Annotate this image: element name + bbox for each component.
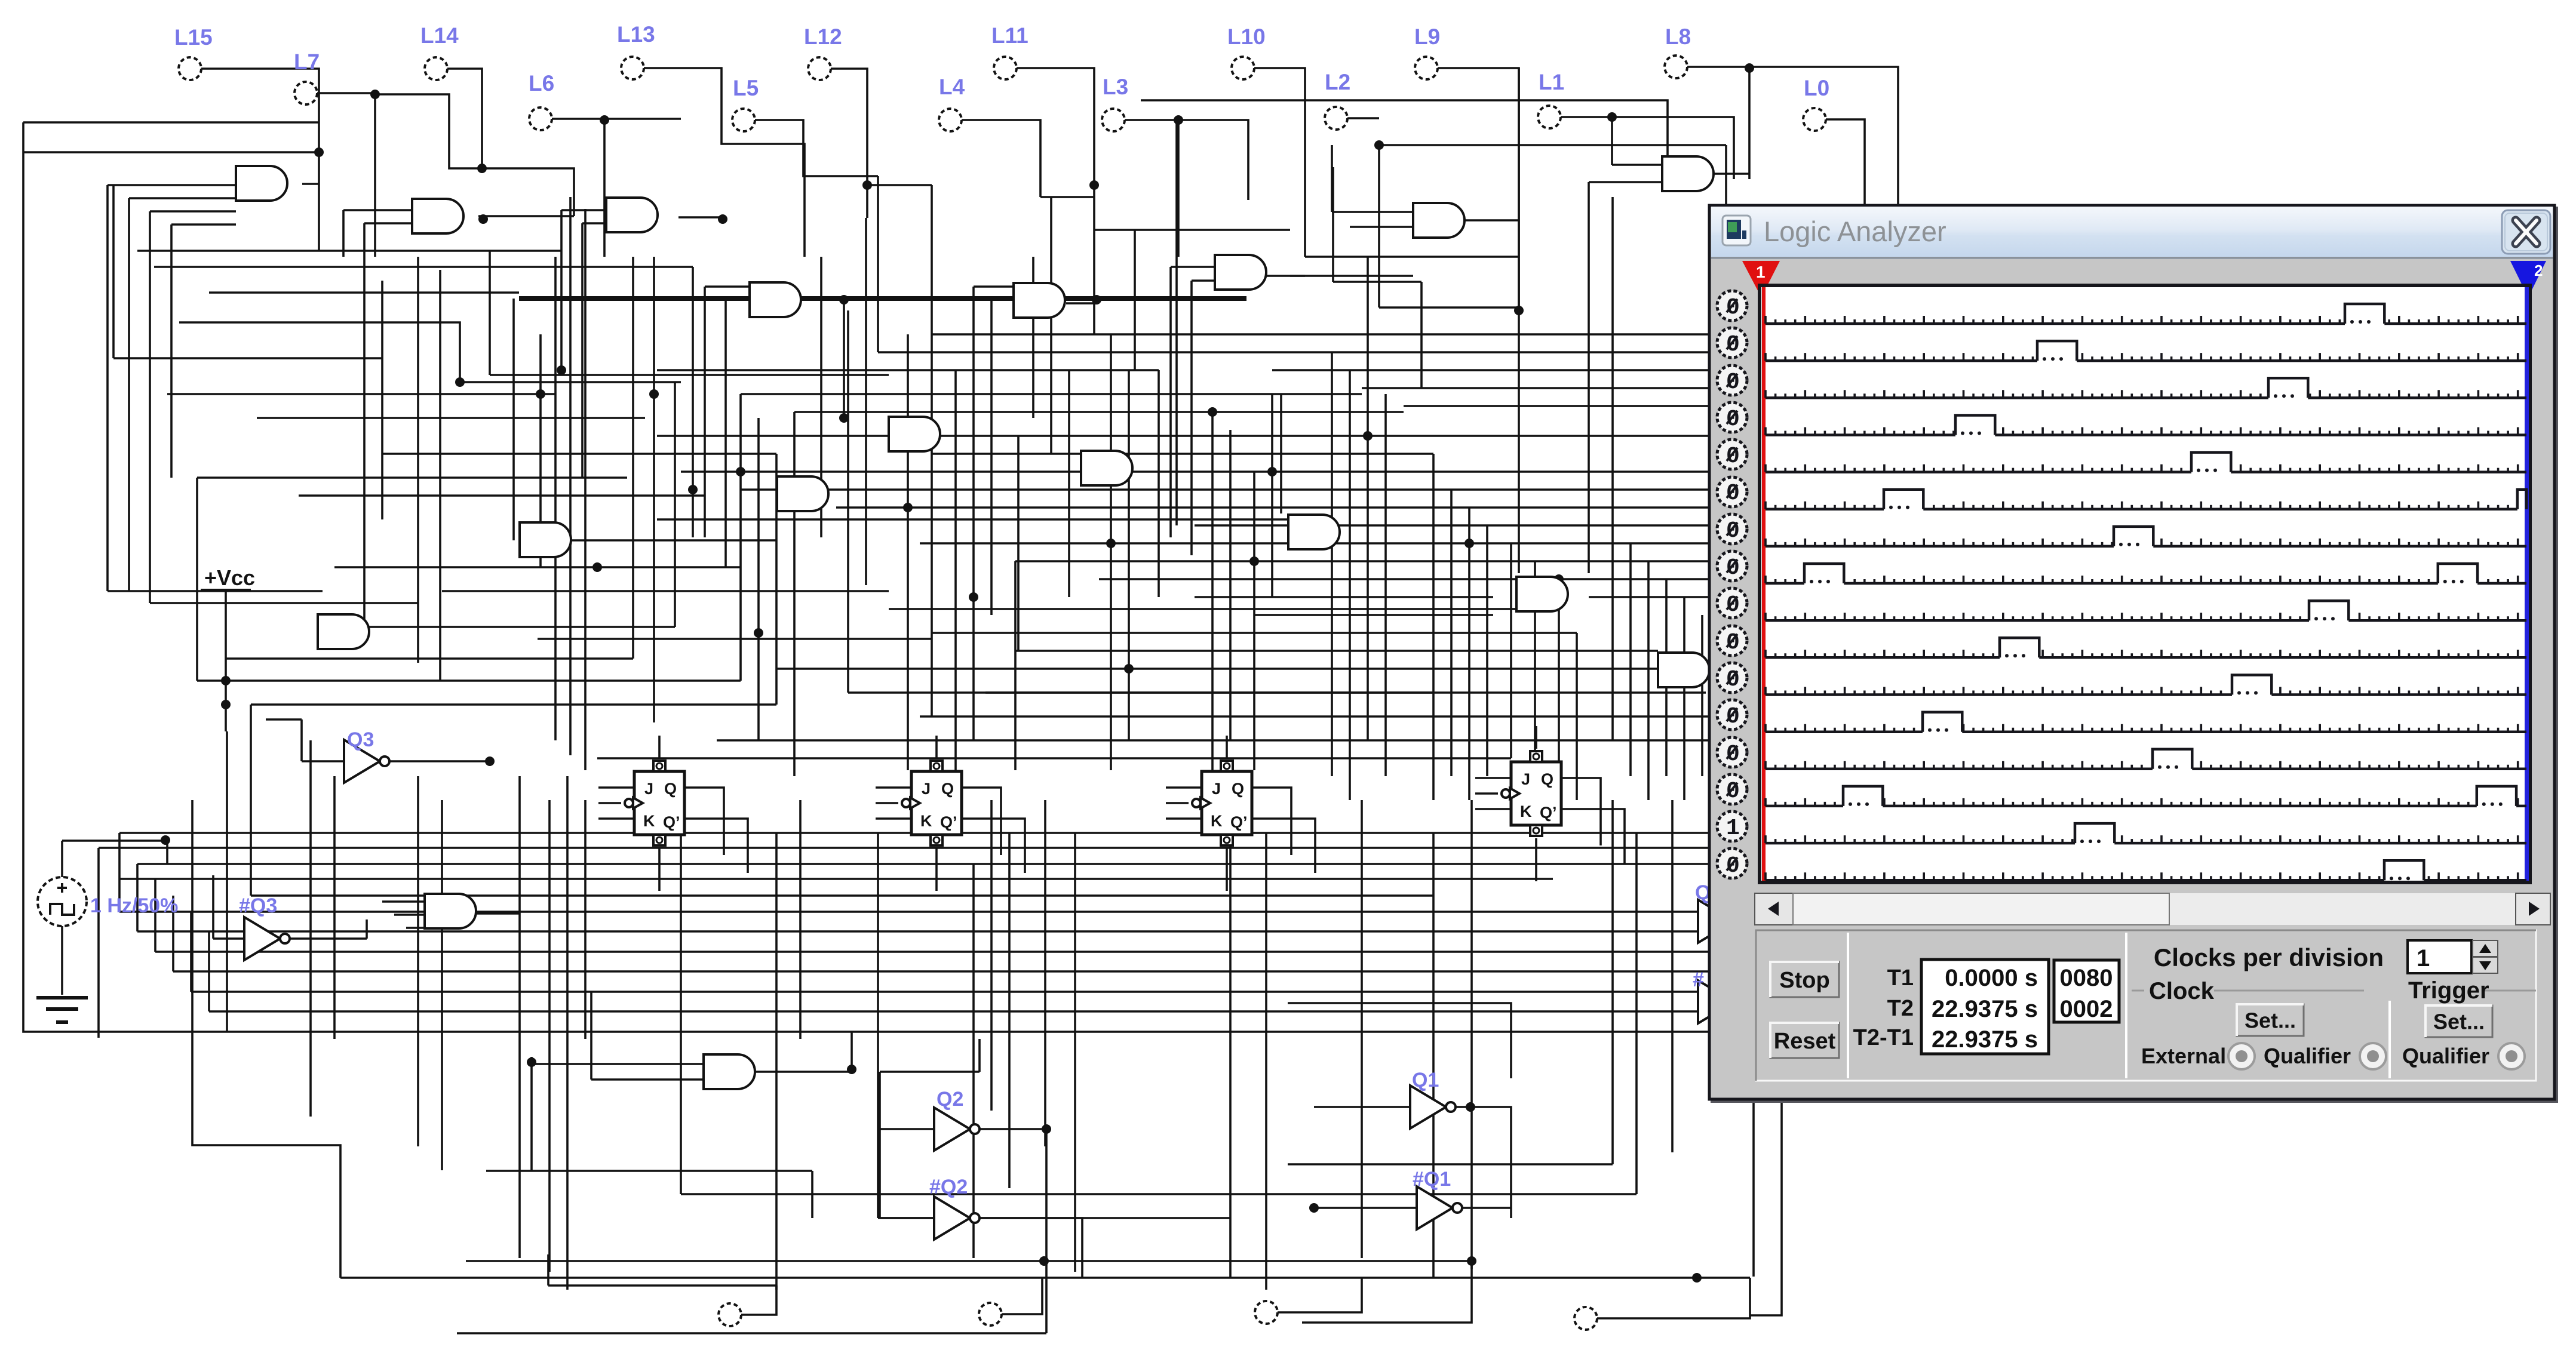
svg-text:2: 2 — [2534, 262, 2543, 279]
wire — [1226, 848, 1228, 891]
wire — [1752, 1100, 1755, 1277]
svg-text:#: # — [1693, 968, 1704, 991]
wire — [547, 1254, 549, 1286]
connector node B3 — [1574, 1307, 1597, 1330]
wire — [317, 93, 375, 257]
wire — [1432, 833, 1435, 1278]
svg-text:J: J — [644, 780, 653, 798]
clocks spin box — [2408, 940, 2498, 973]
wire — [1229, 430, 1232, 740]
indicator lamp L7 — [294, 50, 320, 104]
wire — [478, 215, 574, 217]
wire — [191, 991, 1708, 993]
wire — [880, 1128, 934, 1130]
junction — [1464, 539, 1474, 548]
wire — [681, 470, 1254, 473]
AND gate U17 — [425, 894, 476, 928]
wire — [717, 739, 1726, 742]
svg-text:1: 1 — [2417, 945, 2430, 971]
svg-text:L13: L13 — [617, 22, 655, 47]
waveform channel 4 — [1766, 416, 2526, 435]
wire — [23, 122, 1720, 1032]
wire — [1589, 596, 1726, 598]
wire — [128, 198, 130, 591]
wire — [851, 1032, 853, 1072]
wire — [191, 800, 194, 1032]
wire — [692, 267, 694, 537]
Clock group — [2132, 978, 2364, 1004]
svg-text:Set...: Set... — [2245, 1008, 2296, 1032]
wire — [843, 300, 845, 418]
junction — [1554, 574, 1564, 584]
svg-text:0: 0 — [1726, 332, 1740, 358]
wire — [171, 223, 236, 226]
AND gate U4 — [750, 282, 801, 317]
AND gate U11 — [1662, 156, 1714, 191]
wire — [1561, 117, 1734, 179]
wire — [460, 381, 681, 383]
wire — [932, 632, 1577, 634]
svg-text:J: J — [1521, 770, 1530, 788]
wire — [340, 1277, 1750, 1279]
waveform channel 10 — [1766, 638, 2526, 657]
channel bubble 12 — [1717, 700, 1747, 730]
wire — [1534, 561, 1536, 800]
wire — [1486, 525, 1488, 776]
wire — [166, 841, 168, 864]
channel bubble 9 — [1717, 588, 1747, 618]
channel bubble 16 — [1717, 848, 1747, 879]
wire — [591, 1078, 704, 1081]
wire — [1288, 1003, 1511, 1078]
channel bubble 5 — [1717, 439, 1747, 469]
wire — [226, 657, 633, 660]
wire — [1008, 833, 1011, 1188]
wire — [1701, 615, 1703, 776]
wire — [1081, 435, 1726, 437]
AND gate U3 — [606, 198, 658, 232]
wire — [1475, 777, 1511, 779]
svg-text:Qualifier: Qualifier — [2264, 1044, 2351, 1068]
svg-text:L15: L15 — [174, 25, 213, 50]
wire — [1518, 68, 1520, 573]
wire — [1157, 370, 1160, 597]
button Set... — [2425, 1005, 2492, 1037]
wire — [598, 786, 634, 789]
wire — [962, 819, 1025, 873]
wire — [172, 896, 174, 971]
wire — [119, 911, 1708, 913]
AND gate U12 — [1288, 515, 1340, 549]
wire — [99, 847, 1708, 849]
channel bubble 11 — [1717, 663, 1747, 693]
wire — [566, 776, 569, 1290]
svg-text:Q: Q — [941, 780, 954, 798]
wire — [1613, 524, 1708, 527]
wire — [880, 1217, 934, 1219]
title bar — [1711, 207, 2553, 259]
wire — [962, 788, 1001, 855]
svg-text:0: 0 — [1726, 592, 1740, 618]
junction — [1363, 431, 1373, 441]
wire — [1288, 1163, 1613, 1165]
wire — [1432, 454, 1435, 800]
wire — [741, 1286, 776, 1315]
wire — [136, 864, 139, 931]
waveform channel 16 — [1766, 860, 2526, 880]
svg-text:Qualifier: Qualifier — [2402, 1044, 2489, 1068]
wire — [1612, 164, 1662, 166]
wire — [1589, 181, 1662, 183]
wire — [1535, 726, 1537, 749]
junction — [718, 214, 727, 224]
svg-text:L14: L14 — [420, 23, 459, 48]
T1 T2 labels — [1853, 965, 1914, 1050]
indicator lamp L3 — [1102, 75, 1128, 131]
wire — [439, 270, 441, 681]
channel bubble 13 — [1717, 737, 1747, 767]
horizontal scrollbar — [1755, 893, 2550, 925]
wire — [113, 357, 382, 359]
wire — [108, 590, 323, 592]
wire — [1683, 597, 1685, 800]
wire — [192, 1032, 340, 1278]
wire — [150, 210, 236, 213]
channel bubble 2 — [1717, 328, 1747, 358]
wire — [658, 736, 661, 758]
wire — [118, 833, 121, 912]
wire — [61, 926, 63, 995]
wire — [1748, 67, 1751, 179]
indicator lamp L5 — [732, 76, 759, 131]
wire — [1032, 257, 1034, 418]
power +Vcc — [201, 565, 255, 590]
wire — [561, 209, 606, 211]
wire — [581, 223, 584, 478]
wire — [466, 1260, 1472, 1262]
svg-text:22.9375 s: 22.9375 s — [1932, 996, 2038, 1022]
wire — [1349, 370, 1351, 800]
AND gate U7 — [889, 417, 940, 451]
wire — [657, 435, 1081, 437]
wire — [1305, 256, 1519, 258]
wire — [584, 209, 587, 770]
wire — [1468, 508, 1470, 800]
channel bubble 10 — [1717, 626, 1747, 656]
AND gate U15 — [318, 614, 369, 649]
wire — [681, 1193, 1637, 1195]
wire — [878, 351, 1332, 353]
wire — [196, 478, 198, 681]
wire — [538, 638, 932, 640]
junction — [1106, 539, 1116, 548]
wire — [962, 120, 1040, 197]
connector node B0 — [719, 1303, 741, 1326]
inverter #Q3 — [239, 894, 290, 960]
svg-text:0080: 0080 — [2060, 965, 2113, 991]
ground — [36, 998, 88, 1022]
wire — [658, 848, 661, 891]
svg-text:L11: L11 — [991, 23, 1028, 48]
junction — [455, 377, 465, 387]
wire — [61, 841, 63, 877]
connector node B2 — [1255, 1301, 1278, 1324]
wire — [1017, 68, 1094, 218]
wire — [1254, 614, 1493, 616]
wire — [974, 285, 1014, 288]
indicator lamp L10 — [1227, 24, 1266, 79]
wire — [1066, 302, 1097, 305]
svg-text:Clock: Clock — [2149, 978, 2215, 1004]
wire — [1302, 1261, 1472, 1323]
wire — [1647, 561, 1650, 800]
junction — [847, 1065, 856, 1074]
svg-text:L2: L2 — [1325, 70, 1350, 94]
AND gate U10 — [1413, 203, 1464, 238]
svg-text:L10: L10 — [1227, 24, 1266, 49]
wire — [251, 703, 776, 706]
wire — [644, 68, 805, 257]
wire — [334, 566, 741, 568]
channel bubble 6 — [1717, 477, 1747, 507]
svg-text:0: 0 — [1726, 742, 1740, 767]
wire — [1475, 506, 1726, 509]
svg-text:#Q3: #Q3 — [239, 894, 277, 917]
svg-text:Q1: Q1 — [1412, 1069, 1439, 1091]
wire — [1254, 470, 1726, 473]
wire — [251, 894, 1433, 897]
wire — [724, 300, 727, 567]
wire — [302, 183, 319, 185]
wire — [1141, 100, 1668, 156]
wire — [154, 266, 693, 268]
wire — [552, 118, 681, 120]
wire — [201, 69, 319, 251]
wire — [532, 1063, 704, 1065]
wire — [119, 832, 1726, 834]
wire — [889, 608, 1516, 610]
wire — [366, 919, 368, 939]
button Reset — [1770, 1023, 1839, 1058]
wire — [584, 800, 587, 1039]
svg-text:0: 0 — [1726, 667, 1740, 693]
wire — [1379, 306, 1519, 309]
wire — [1253, 472, 1255, 770]
wire — [678, 216, 723, 219]
svg-text:0: 0 — [1726, 481, 1740, 506]
junction — [1208, 407, 1217, 417]
wire — [250, 705, 252, 896]
button Stop — [1770, 962, 1839, 997]
wire — [1665, 579, 1668, 776]
wire — [1166, 817, 1202, 820]
inverter Q3 — [344, 728, 389, 783]
wire — [978, 1039, 981, 1072]
svg-text:L0: L0 — [1804, 76, 1829, 100]
svg-text:L1: L1 — [1539, 70, 1564, 94]
time readout box — [1921, 959, 2049, 1054]
svg-text:External: External — [2141, 1044, 2226, 1068]
wire — [539, 334, 542, 567]
junction — [221, 700, 231, 709]
wire — [226, 731, 228, 1032]
wire — [1611, 117, 1613, 165]
waveform channel 2 — [1766, 341, 2526, 361]
wire — [741, 393, 1362, 395]
wire — [876, 786, 911, 789]
wire — [747, 1071, 852, 1073]
title bar bottom edge — [1711, 257, 2553, 259]
junction — [221, 676, 231, 685]
wire — [739, 394, 742, 681]
junction — [736, 467, 745, 476]
wire — [836, 506, 1475, 509]
junction — [1267, 467, 1277, 476]
wire — [548, 800, 551, 1272]
wire — [179, 322, 460, 382]
channel bubble 1 — [1717, 291, 1747, 321]
svg-text:Q3: Q3 — [347, 728, 374, 751]
wire — [1611, 525, 1614, 740]
wire — [309, 740, 312, 1117]
junction — [862, 180, 872, 190]
AND gate U9 — [777, 476, 828, 511]
svg-text:1: 1 — [1756, 263, 1766, 281]
AND gate U5 — [1014, 283, 1065, 318]
AND gate U1 — [236, 166, 287, 201]
svg-text:L7: L7 — [294, 50, 320, 74]
wire — [197, 476, 627, 479]
wire — [1015, 560, 1553, 562]
wire — [1470, 800, 1473, 1269]
wire — [684, 788, 724, 855]
wire — [657, 518, 1314, 521]
wire — [657, 369, 1159, 371]
wire — [1074, 833, 1076, 1272]
wire — [530, 1057, 533, 1171]
wire — [382, 453, 776, 455]
junction — [1745, 63, 1754, 73]
wire — [518, 776, 521, 1258]
JK flip-flop FF2 — [902, 761, 962, 845]
wire — [776, 668, 1684, 670]
wire — [1169, 267, 1172, 537]
wire — [1687, 67, 1898, 205]
AND gate U18 — [704, 1054, 755, 1089]
wire — [441, 800, 443, 1170]
wire — [155, 951, 1708, 953]
wire — [1750, 1100, 1782, 1315]
junction — [649, 389, 659, 399]
wire — [757, 418, 760, 740]
wire — [519, 296, 1246, 301]
wire — [935, 736, 938, 758]
indicator lamp L11 — [991, 23, 1028, 79]
wire — [775, 454, 778, 705]
button Set... — [2237, 1004, 2304, 1036]
channel bubble 4 — [1717, 402, 1747, 432]
svg-text:1 Hz/50%: 1 Hz/50% — [90, 894, 178, 917]
svg-text:L6: L6 — [529, 71, 554, 96]
wire — [1635, 833, 1638, 1194]
Trigger group — [2408, 977, 2536, 1004]
wire — [486, 1170, 812, 1172]
wire — [597, 757, 1511, 759]
waveform channel 8 — [1766, 564, 2526, 583]
wire — [137, 930, 1726, 933]
junction — [485, 756, 495, 766]
wire — [1558, 579, 1560, 776]
wire — [799, 299, 844, 301]
External label + radio — [2141, 1044, 2226, 1068]
wire — [1332, 211, 1413, 213]
svg-text:0: 0 — [1726, 555, 1740, 581]
wire — [1475, 808, 1511, 810]
svg-text:K: K — [643, 812, 655, 830]
inverter #Q2 — [929, 1176, 980, 1240]
wire — [811, 1171, 813, 1218]
control panel — [1756, 930, 2536, 1081]
wire — [1177, 120, 1180, 257]
wire — [1347, 117, 1379, 119]
svg-text:L3: L3 — [1103, 75, 1128, 99]
junction — [370, 90, 380, 99]
wire — [442, 590, 889, 592]
wire — [489, 251, 491, 375]
wire — [1195, 596, 1493, 598]
wire — [1611, 197, 1614, 525]
wire — [978, 1218, 1082, 1278]
junction — [600, 115, 609, 125]
svg-text:#Q1: #Q1 — [1413, 1168, 1451, 1191]
wire — [1362, 387, 1726, 389]
svg-text:Logic Analyzer: Logic Analyzer — [1764, 216, 1946, 247]
wire — [417, 776, 419, 1146]
wire — [1588, 182, 1590, 257]
wire — [406, 927, 425, 929]
junction — [1039, 1256, 1049, 1266]
wire — [300, 719, 303, 761]
wire — [381, 281, 383, 519]
wire — [1314, 1106, 1410, 1108]
waveform channel 14 — [1766, 786, 2526, 806]
wire — [877, 176, 879, 352]
wire — [1611, 800, 1614, 1164]
junction — [1089, 180, 1099, 190]
wire — [512, 299, 515, 540]
wire — [590, 991, 592, 1080]
wire — [208, 931, 210, 1011]
wire — [1128, 370, 1130, 740]
wire — [1278, 1278, 1362, 1312]
wire — [985, 691, 1433, 694]
svg-text:Q’: Q’ — [663, 813, 680, 831]
wire — [167, 393, 555, 395]
wire — [831, 69, 867, 218]
wire — [1252, 788, 1291, 855]
wire — [520, 539, 777, 542]
junction — [527, 1057, 536, 1067]
indicator lamp L8 — [1665, 24, 1691, 78]
junction — [1249, 556, 1259, 566]
junction — [1042, 1124, 1051, 1134]
wire — [755, 120, 878, 176]
svg-text:Q’: Q’ — [1230, 813, 1248, 831]
wire — [394, 914, 425, 916]
wire — [876, 817, 911, 820]
svg-text:J: J — [1212, 780, 1221, 798]
wire — [1175, 119, 1178, 525]
